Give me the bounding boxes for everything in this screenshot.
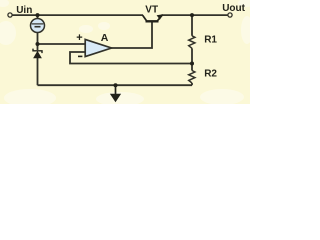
zener diode <box>33 49 42 58</box>
node R1 top <box>190 13 194 17</box>
wire noninverting input <box>38 43 86 45</box>
terminal output <box>228 13 232 17</box>
wire input top <box>12 14 143 16</box>
wire R2 top <box>191 64 193 71</box>
resistor R2 <box>189 71 195 84</box>
wire R1 bottom <box>191 48 193 63</box>
node ground rail <box>114 83 118 87</box>
background light mottling <box>0 0 254 107</box>
voltage source <box>31 19 45 33</box>
wire source drop <box>37 15 39 19</box>
wire inverting input feedback <box>70 52 192 64</box>
svg-text:A: A <box>101 32 109 44</box>
wire R1 top <box>191 15 193 36</box>
wire source to node <box>37 32 39 50</box>
node source top <box>36 13 40 17</box>
svg-text:Uout: Uout <box>222 3 245 14</box>
label minus <box>78 56 82 58</box>
resistor R1 <box>189 36 195 49</box>
wire opamp output to base <box>112 22 153 48</box>
node divider <box>190 62 194 66</box>
op-amp A <box>85 39 111 56</box>
svg-text:R2: R2 <box>204 69 217 80</box>
wire emitter to output <box>162 14 229 16</box>
svg-text:Uin: Uin <box>16 5 32 16</box>
transistor VT <box>143 14 163 21</box>
wire R2 bottom <box>191 83 193 85</box>
wire bottom rail <box>38 84 193 86</box>
ground <box>111 85 120 101</box>
svg-text:VT: VT <box>145 4 158 15</box>
svg-text:R1: R1 <box>204 35 217 46</box>
terminal input <box>8 13 12 17</box>
node noninverting <box>36 42 40 46</box>
wire zener to ground rail <box>37 57 39 86</box>
svg-text:+: + <box>76 32 82 44</box>
